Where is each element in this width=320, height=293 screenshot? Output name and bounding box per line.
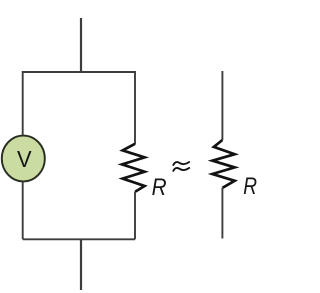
wire: loop right edge lower segment (134, 192, 136, 240)
svg-text:R: R (152, 174, 167, 201)
svg-text:R: R (243, 173, 257, 200)
resistor R (parallel branch zigzag) (122, 144, 145, 192)
label R (equivalent resistor) (243, 173, 257, 200)
wire: loop bottom edge (node B) (23, 238, 135, 240)
wire: loop top edge (node A) (23, 71, 135, 73)
wire: equivalent resistor bottom lead (221, 188, 223, 239)
wire: top lead into node A (80, 18, 82, 72)
wire: loop left edge (through voltmeter) (22, 71, 24, 239)
resistor R (equivalent zigzag) (212, 140, 234, 188)
wire: bottom lead from node B (80, 239, 82, 290)
voltmeter V (body circle) (2, 136, 45, 182)
svg-text:V: V (17, 146, 32, 172)
label R (parallel branch resistor) (152, 174, 167, 201)
wire: equivalent resistor top lead (221, 71, 223, 140)
wire: loop right edge upper segment (134, 71, 136, 144)
approx-equal symbol (173, 162, 189, 171)
